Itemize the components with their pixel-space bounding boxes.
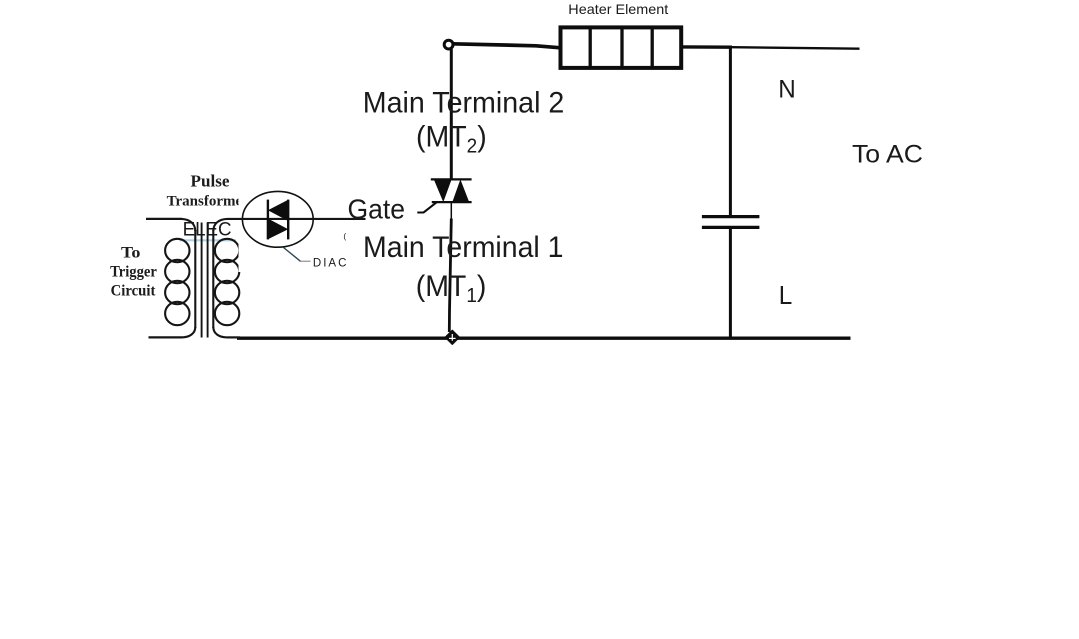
- diac D1 circle: [242, 191, 313, 247]
- svg-text:N: N: [778, 75, 796, 103]
- svg-text:Main Terminal 1: Main Terminal 1: [363, 231, 564, 264]
- svg-text:To AC: To AC: [852, 141, 923, 168]
- svg-text:Gate: Gate: [348, 194, 406, 225]
- transformer T1: secondary winding: [213, 219, 239, 338]
- transformer T1: core: [202, 223, 208, 338]
- svg-text:Main Terminal 2: Main Terminal 2: [363, 86, 565, 119]
- pasted image white background of DIAC: [239, 168, 353, 272]
- svg-text:(: (: [343, 231, 346, 241]
- wire: top node to heater element: [452, 44, 559, 48]
- capacitor C1 bottom lead: [729, 229, 732, 339]
- wire: capacitor junction to right end (N line): [732, 47, 860, 49]
- label: Pulse Transformer: [167, 171, 250, 209]
- watermark ELEC: [180, 220, 237, 241]
- capacitor C1: [702, 217, 760, 228]
- svg-text:Circuit: Circuit: [111, 282, 156, 299]
- wire: heater to capacitor junction: [683, 45, 733, 49]
- transformer T1: primary top lead: [146, 218, 182, 220]
- transformer T1: primary bottom lead: [149, 336, 183, 338]
- svg-text:Pulse: Pulse: [191, 171, 230, 190]
- label: (MT2): [416, 121, 487, 158]
- transformer T1: primary winding: [165, 219, 195, 338]
- svg-text:Transformer: Transformer: [167, 193, 250, 209]
- wire: triac to bottom node (thin part): [450, 201, 452, 219]
- wire: bottom rail: [237, 337, 851, 340]
- svg-text:To: To: [121, 244, 141, 261]
- node: bottom junction: [446, 331, 459, 344]
- capacitor C1 top lead: [729, 47, 732, 216]
- wire: bottom rail thin left part: [227, 336, 240, 338]
- svg-text:Trigger: Trigger: [110, 264, 157, 281]
- label: (MT1): [416, 270, 487, 307]
- wire: triac to bottom node: [449, 219, 451, 333]
- label: To Trigger Circuit: [110, 244, 157, 299]
- gate lead: [417, 202, 437, 213]
- svg-text:L: L: [779, 282, 793, 310]
- wire: transformer secondary to gate (through diac): [227, 218, 366, 220]
- triac Q1: [431, 179, 472, 202]
- diac D1 symbol: [268, 200, 288, 240]
- node: top junction ring: [444, 40, 453, 49]
- leader line to DIAC label: [284, 248, 311, 262]
- heater element: [561, 27, 682, 68]
- svg-text:DIAC: DIAC: [313, 257, 347, 269]
- svg-text:Heater Element: Heater Element: [568, 1, 668, 17]
- wire: MT2 top node to triac: [450, 49, 453, 180]
